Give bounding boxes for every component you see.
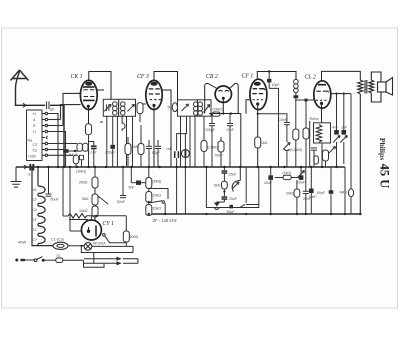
- svg-text:C1-(C3): C1-(C3): [51, 238, 64, 242]
- svg-text:(1kΩ): (1kΩ): [283, 171, 292, 175]
- svg-text:+25V: +25V: [28, 155, 37, 159]
- svg-text:CL 2: CL 2: [305, 75, 316, 81]
- svg-text:0,1uF: 0,1uF: [88, 150, 97, 154]
- svg-text:CF 1: CF 1: [242, 74, 254, 80]
- svg-text:4nF: 4nF: [332, 126, 338, 130]
- svg-text:40uF: 40uF: [264, 181, 272, 185]
- svg-text:100pF: 100pF: [205, 128, 215, 132]
- svg-text:45 U: 45 U: [378, 164, 392, 189]
- svg-text:C2: C2: [33, 143, 38, 147]
- svg-text:SP: SP: [50, 108, 56, 112]
- svg-text:H: H: [33, 112, 36, 116]
- svg-text:50uF: 50uF: [51, 198, 60, 202]
- svg-text:Si: Si: [57, 254, 60, 258]
- svg-text:1nF: 1nF: [341, 126, 347, 130]
- svg-text:SK100A: SK100A: [93, 242, 107, 246]
- svg-text:5kΩ: 5kΩ: [214, 184, 221, 188]
- svg-text:10kΩ: 10kΩ: [79, 209, 88, 213]
- svg-text:CY 1: CY 1: [103, 221, 115, 227]
- svg-text:1nF: 1nF: [166, 147, 172, 151]
- svg-text:10uF: 10uF: [297, 181, 305, 185]
- svg-text:20kΩ: 20kΩ: [79, 181, 88, 185]
- svg-text:20nF: 20nF: [303, 197, 311, 201]
- svg-text:M4Ω: M4Ω: [340, 191, 348, 195]
- svg-text:Reixx: Reixx: [310, 117, 319, 121]
- svg-text:CF: CF: [33, 198, 37, 202]
- svg-text:20kΩ: 20kΩ: [286, 192, 295, 196]
- svg-text:5nF: 5nF: [129, 186, 135, 190]
- svg-text:H: H: [33, 130, 36, 134]
- svg-text:50nF: 50nF: [117, 200, 125, 204]
- svg-text:1kΩ: 1kΩ: [261, 141, 268, 145]
- svg-text:50nF: 50nF: [215, 154, 223, 158]
- svg-text:10pF: 10pF: [272, 83, 280, 87]
- svg-text:Philips: Philips: [378, 138, 387, 160]
- svg-text:Cu: Cu: [33, 149, 38, 153]
- svg-text:5kΩ: 5kΩ: [82, 197, 89, 201]
- svg-text:LB: LB: [33, 188, 37, 192]
- svg-text:10nF: 10nF: [279, 118, 287, 122]
- svg-text:600Ω: 600Ω: [130, 235, 139, 239]
- svg-text:50: 50: [168, 106, 172, 110]
- svg-text:25uF: 25uF: [229, 197, 237, 201]
- svg-text:CF: CF: [33, 218, 37, 222]
- svg-text:60pF: 60pF: [317, 191, 325, 195]
- svg-text:(0,3MΩ): (0,3MΩ): [290, 148, 303, 152]
- svg-text:(1MΩ): (1MΩ): [76, 170, 86, 174]
- svg-text:(6kΩ): (6kΩ): [153, 180, 162, 184]
- svg-text:CB 2: CB 2: [206, 74, 218, 80]
- svg-text:46W: 46W: [18, 240, 26, 245]
- svg-text:Ra: Ra: [28, 139, 33, 143]
- svg-text:10kΩ: 10kΩ: [153, 194, 162, 198]
- svg-text:R: R: [33, 124, 36, 128]
- svg-text:50pF: 50pF: [152, 151, 160, 155]
- svg-text:ZF - 128 kHz: ZF - 128 kHz: [153, 218, 177, 223]
- svg-text:200pF: 200pF: [105, 150, 115, 154]
- svg-text:50uF: 50uF: [227, 210, 235, 214]
- svg-text:10nF: 10nF: [226, 128, 234, 132]
- svg-text:CK 1: CK 1: [71, 74, 83, 80]
- svg-text:CL: CL: [33, 228, 37, 232]
- svg-text:(OMC): (OMC): [213, 108, 224, 112]
- svg-text:0,1MΩ: 0,1MΩ: [208, 146, 219, 150]
- svg-text:10kΩ: 10kΩ: [153, 207, 162, 211]
- svg-text:CF 3: CF 3: [137, 74, 149, 80]
- svg-text:25uF: 25uF: [229, 173, 237, 177]
